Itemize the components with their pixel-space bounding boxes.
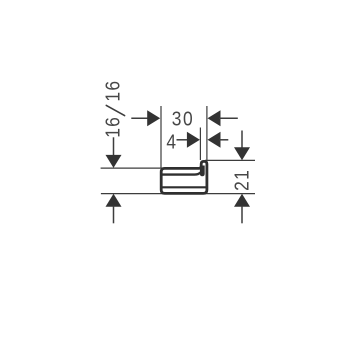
- svg-text:16: 16: [101, 116, 123, 138]
- wire: extension line left of 4: [199, 128, 201, 161]
- wire: right top line: [205, 159, 255, 161]
- hook inner bottom edge: [163, 186, 206, 188]
- wire: extension line left of 30: [160, 106, 162, 168]
- slash of 16/16: [106, 105, 124, 115]
- hook body outline: [161, 161, 207, 193]
- dim 4: [166, 130, 228, 152]
- svg-text:21: 21: [230, 169, 252, 191]
- hook front wall lower block: [200, 166, 205, 177]
- svg-text:16: 16: [101, 80, 123, 102]
- wire: extension line right: [206, 106, 208, 160]
- wire: left wall line top: [101, 167, 162, 169]
- dim 16/16: [101, 80, 124, 224]
- svg-text:4: 4: [166, 130, 176, 152]
- wire: bottom wall line: [101, 193, 255, 195]
- dim 30: [131, 107, 238, 129]
- dim 21: [230, 131, 252, 224]
- svg-text:30: 30: [172, 107, 194, 129]
- hook inner top edge: [163, 173, 201, 175]
